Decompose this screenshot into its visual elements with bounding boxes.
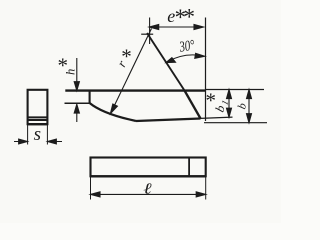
top edge — [65, 89, 205, 91]
svg-text:*: * — [121, 45, 132, 69]
dimension b arrows — [247, 90, 252, 123]
small tick at slant top — [141, 33, 153, 35]
slant extension above top — [147, 33, 185, 91]
bottom edge — [136, 119, 201, 122]
angle arc 30deg — [166, 53, 205, 62]
vertical reference line — [205, 18, 207, 122]
svg-text:*: * — [183, 4, 195, 29]
b1 bottom extension — [201, 117, 233, 118]
svg-text:*: * — [205, 89, 216, 113]
dimension l extension lines — [91, 176, 206, 199]
dimension s arrows — [14, 139, 62, 144]
front vertical edge — [89, 91, 91, 104]
svg-text:30°: 30° — [178, 38, 196, 56]
step bottom extension (h*) — [65, 102, 90, 104]
front view rectangle (width s) — [28, 90, 48, 124]
svg-text:*: * — [57, 53, 68, 77]
dimension e** line — [149, 25, 203, 30]
c dimension left extension — [149, 18, 151, 45]
back slanted edge (30 deg) — [185, 91, 201, 119]
dimension b1* arrows — [227, 90, 232, 118]
dimension r* leader — [110, 29, 151, 114]
front radius curve r — [90, 103, 136, 121]
dimension h* leader and arrows — [74, 58, 79, 122]
svg-text:ℓ: ℓ — [143, 180, 152, 197]
dimension s extension lines — [28, 125, 48, 145]
top edge extension to b dims — [206, 89, 265, 91]
b bottom extension — [204, 122, 267, 124]
dimension l line — [91, 192, 206, 197]
side view outline — [65, 18, 268, 123]
bottom view rectangle (length l) — [91, 158, 206, 177]
svg-text:s: s — [34, 124, 41, 145]
label b1* — [205, 89, 230, 114]
